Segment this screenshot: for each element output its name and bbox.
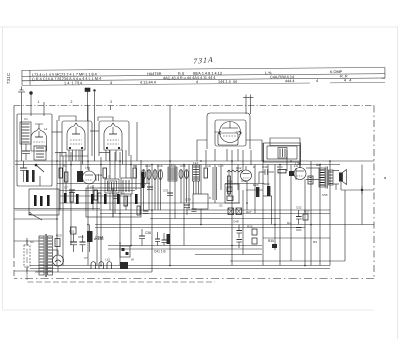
wire gang leads b [181, 179, 187, 204]
svg-text:4: 4 [196, 80, 198, 84]
wire riser x101 [100, 157, 102, 266]
capacitor C1 trimmer [22, 144, 30, 160]
resistor R14 dark [167, 234, 171, 244]
svg-text:C42: C42 [241, 179, 247, 183]
capacitor C52 [296, 210, 302, 225]
grid top mark V0 [35, 124, 43, 128]
wire link d [99, 152, 110, 154]
wire riser x215 [214, 165, 216, 204]
capacitor C48 [237, 225, 243, 239]
capacitor C2 [20, 161, 27, 182]
wire heater bus lower [30, 268, 330, 270]
mains switch block [120, 262, 128, 269]
svg-text:C12: C12 [112, 192, 118, 196]
wire riser x362 [361, 165, 363, 225]
svg-text:C1: C1 [24, 117, 28, 121]
resistor R11 [137, 206, 140, 215]
svg-text:C11: C11 [97, 173, 103, 177]
svg-text:P: P [209, 196, 211, 200]
earth terminal [30, 92, 33, 116]
svg-text:C31: C31 [163, 189, 169, 193]
resistor R0a dark [26, 170, 29, 182]
wire left link e [14, 218, 57, 220]
wire screen bus [150, 218, 280, 220]
wire riser x232 [231, 150, 233, 266]
svg-text:R8: R8 [133, 164, 137, 168]
wire heater bus upper [30, 265, 330, 267]
wire riser x170 [169, 106, 171, 266]
wire plate to transformer [306, 167, 319, 169]
wave band switch unit box [29, 189, 59, 215]
capacitor C35 [162, 233, 167, 246]
tube V0 band filter [31, 128, 47, 151]
wire riser x71 [70, 152, 72, 245]
resistor R33 [267, 186, 270, 196]
resistor R0b dark [32, 170, 35, 182]
svg-text:R33: R33 [264, 182, 270, 186]
svg-text:C25: C25 [218, 164, 224, 168]
oscillator coil hatched [77, 171, 83, 182]
chassis border left [13, 106, 15, 253]
variable capacitor C17 [159, 170, 163, 180]
resistor R3b [70, 192, 73, 202]
wire coil leads [194, 181, 199, 194]
wire riser x131 [130, 155, 132, 178]
resistor R4c dark [104, 194, 107, 204]
coil former lines [213, 167, 217, 200]
svg-text:C14: C14 [145, 164, 151, 168]
resistor R5 [124, 196, 127, 206]
chassis border right (dashed) [373, 106, 375, 279]
svg-text:R12: R12 [236, 166, 242, 170]
resistor R29 [256, 187, 259, 197]
resistor R4 [103, 168, 106, 178]
heater choke L14 [91, 262, 96, 269]
svg-text:144.1.4 44: 144.1.4 44 [218, 80, 237, 84]
wire detector line [225, 183, 262, 185]
svg-text:1: 1 [38, 100, 40, 104]
svg-text:R28: R28 [227, 180, 233, 184]
svg-text:731C: 731C [6, 73, 11, 84]
wire riser x152 [151, 165, 153, 273]
wire ground return [35, 271, 152, 273]
grid cap lead V1 [59, 116, 76, 121]
voltage selector block [120, 246, 130, 257]
wire link V1-V2 [90, 130, 99, 132]
capacitor C39 [184, 205, 190, 215]
svg-text:S2: S2 [219, 204, 223, 208]
mains antenna tap [243, 95, 254, 115]
tube V2 [104, 123, 122, 150]
wire det segment [246, 189, 263, 191]
switch unit box b [113, 188, 141, 217]
pickup terminals [85, 88, 95, 161]
wire riser x126 [125, 150, 127, 178]
wire riser x81 [80, 150, 82, 171]
wire grid segment [60, 195, 131, 197]
svg-text:C48: C48 [233, 220, 239, 224]
wire terminal 3 tick [110, 106, 112, 111]
wire cap riser x93 [92, 185, 94, 210]
variable capacitor C14 [142, 170, 146, 180]
resistor R5b dark [135, 194, 138, 204]
wire riser x229 [228, 170, 230, 196]
svg-text:R1: R1 [63, 164, 67, 168]
wire riser x63 [62, 156, 64, 266]
wire riser x196 [195, 165, 197, 195]
wire b plus right [263, 237, 330, 239]
wire riser x271 [271, 196, 273, 225]
detector coupling wavy resistor [227, 170, 243, 172]
wire riser x76 [75, 150, 77, 161]
wire mixer avc [197, 140, 207, 161]
wire transformer to rectifier [53, 249, 58, 251]
wire HT bus upper [15, 160, 374, 162]
svg-text:C46: C46 [262, 165, 268, 169]
svg-text:C36: C36 [145, 231, 151, 235]
wire AVC line [57, 183, 150, 185]
wire riser x110 [109, 150, 111, 179]
wire riser x263 [262, 143, 264, 266]
tube V5 detector [241, 166, 252, 181]
resistor R34 [278, 170, 286, 173]
svg-text:R20: R20 [56, 234, 62, 238]
svg-text:R29: R29 [253, 183, 259, 187]
mains transformer T3 primary [39, 236, 44, 275]
svg-text:4 4: 4 4 [344, 79, 351, 83]
coil L3 [34, 146, 46, 160]
wire mains lower [14, 270, 39, 272]
svg-text:C7: C7 [64, 186, 68, 190]
mixer box leads [215, 149, 238, 161]
wire B+ feed upper [95, 224, 374, 226]
IF transformer T1b box [121, 178, 132, 194]
wire detector return [195, 254, 262, 256]
tone capacitor C53 [296, 228, 302, 231]
capacitor C31 [167, 193, 173, 196]
wire riser x158 [157, 165, 159, 211]
svg-text:RS: RS [313, 240, 317, 244]
wire link c [60, 155, 88, 157]
svg-text:L4: L4 [85, 166, 89, 170]
svg-text:L15: L15 [105, 258, 110, 262]
inner screen box V4 [218, 133, 238, 145]
wire riser x136 [135, 165, 137, 190]
svg-text:444.4: 444.4 [285, 79, 295, 83]
wire riser x305 [304, 179, 306, 266]
wire antenna drop [21, 118, 23, 161]
wire riser x147 [146, 165, 148, 184]
svg-text:2: 2 [71, 100, 73, 104]
svg-text:C50: C50 [78, 235, 84, 239]
resistor R31 [252, 238, 257, 244]
wire cathode bus [15, 209, 330, 211]
capacitor C34 [155, 232, 160, 246]
capacitor C30 [147, 187, 153, 190]
capacitor C12 [113, 196, 119, 199]
wire grid-bias long [341, 189, 374, 191]
svg-text:C52: C52 [296, 206, 302, 210]
svg-text:R30: R30 [247, 225, 253, 229]
wire riser x66 [65, 152, 67, 203]
wire riser x88 low [87, 185, 89, 266]
wire riser x141 [140, 160, 142, 214]
wire left return [14, 208, 100, 210]
wire bias bus [100, 213, 330, 215]
junction dots [56, 160, 331, 266]
resistor R2b dark [40, 196, 43, 206]
wire riser x251 [250, 150, 252, 165]
capacitor C7 [69, 190, 75, 193]
oscillator unit box [86, 188, 113, 217]
svg-text:1.4. 1.7/14.: 1.4. 1.7/14. [64, 81, 83, 85]
input bandfilter shield box [17, 114, 52, 186]
resistor R4b [98, 193, 101, 203]
svg-text:U: U [119, 242, 121, 246]
svg-text:Ru: Ru [287, 221, 291, 225]
wire riser x60 [59, 152, 61, 210]
resistor R2a dark [34, 195, 37, 206]
wire riser x311b [310, 225, 312, 266]
svg-text:3: 3 [110, 100, 112, 104]
mains transformer T3 secondary [48, 236, 53, 275]
variable capacitor C15 [147, 170, 151, 180]
IF transformer T2 winding [278, 148, 287, 159]
svg-text:4AC.43.4.R.u.44.4A4.4.11.44.4: 4AC.43.4.R.u.44.4A4.4.11.44.4 [163, 76, 216, 80]
wire riser x296 [295, 168, 297, 180]
tube V4 mixer [215, 122, 242, 143]
resistor R3a dark [64, 193, 67, 203]
heater choke L15 [99, 262, 104, 269]
resistor R6 [133, 168, 136, 178]
wire link a [52, 131, 62, 133]
mains transformer T3 core [45, 234, 46, 277]
wire link b [55, 152, 66, 154]
switch lever left [29, 213, 42, 221]
wire riser x341 [340, 181, 342, 190]
wire riser x88 [87, 106, 89, 171]
wire riser x300 [299, 145, 301, 168]
wire riser x206 [205, 150, 207, 165]
capacitor C49 [237, 240, 243, 249]
capacitor C40 [192, 209, 197, 212]
wire det segment b [263, 195, 272, 197]
svg-text:R27: R27 [246, 210, 252, 214]
wire riser x243 [242, 190, 244, 255]
svg-text:Aof: Aof [316, 163, 321, 167]
resistor R1 [59, 168, 62, 178]
wire bias tick [361, 186, 363, 194]
wire HT bus lower [15, 164, 340, 166]
wire riser x275 [274, 165, 276, 251]
wire riser x120 [119, 152, 121, 178]
variable capacitor C19 [179, 170, 183, 179]
wire riser x345 [344, 190, 346, 261]
svg-text:C19: C19 [180, 164, 186, 168]
svg-text:4: 4 [110, 81, 112, 85]
hum bucking coil [308, 176, 313, 184]
wire riser x201 [200, 165, 202, 195]
tube V6 output [294, 163, 306, 180]
IF transformer T1 box [105, 179, 119, 193]
svg-text:W: W [131, 258, 134, 262]
tube V2 shield box [99, 121, 129, 156]
smoothing choke L13 [87, 225, 93, 253]
svg-text:C9: C9 [90, 186, 94, 190]
resistor R37 [303, 214, 308, 220]
svg-text:C33A: C33A [95, 236, 104, 240]
wire riser x137 [136, 122, 138, 161]
wire riser x311 [310, 161, 312, 225]
svg-text:C30: C30 [140, 183, 146, 187]
wire rectifier output [57, 266, 59, 272]
resistor R3c dark [76, 194, 79, 204]
wire speaker top [333, 170, 339, 172]
resistor R20 [55, 239, 60, 247]
capacitor C36 [139, 229, 145, 246]
svg-text:R21: R21 [69, 230, 75, 234]
padder capacitor C11 [96, 174, 99, 181]
wire decoupling line a [108, 245, 262, 247]
variable capacitor C16 [153, 170, 157, 180]
wire riser x189 [188, 165, 190, 211]
coil L12 [193, 165, 200, 181]
svg-text:HA4T6R: HA4T6R [147, 72, 162, 76]
variable capacitor C20 [185, 170, 189, 179]
wire field coil feed [306, 179, 319, 181]
wire V1 leads [69, 150, 83, 165]
mixer shield box outer [207, 113, 250, 149]
electrolytic capacitor C51 [80, 235, 86, 252]
switch S1 [35, 164, 44, 186]
wire riser x184 [183, 165, 185, 246]
svg-text:L12: L12 [193, 161, 198, 165]
wire cap riser x97 [96, 190, 98, 266]
resistor R30 [252, 229, 257, 235]
wire riser x175 [174, 165, 176, 219]
wire mixer output [246, 140, 262, 161]
IF coil L10 [168, 167, 177, 181]
chassis border bottom (dashed) [14, 278, 374, 280]
svg-text:4: 4 [316, 79, 318, 83]
output transformer T4 core [326, 167, 327, 189]
resistor R2c dark [47, 195, 50, 206]
speaker LS [339, 170, 347, 185]
coil L1 [20, 122, 31, 144]
svg-text:a: a [384, 176, 386, 180]
wire riser x320 [319, 165, 321, 266]
output transformer T4 secondary [329, 170, 333, 185]
wire af return [230, 260, 345, 262]
wire riser x259 [258, 172, 260, 184]
svg-text:C55: C55 [322, 193, 328, 197]
switch contacts S2 [228, 208, 242, 215]
grid cap lead V2 [98, 117, 113, 121]
resistor R5a dark [117, 194, 120, 204]
grid box R28 C43 [225, 184, 239, 203]
capacitor C46 [259, 169, 274, 175]
wire mains input [14, 240, 39, 242]
junction dot bias [361, 189, 363, 191]
resistor R21 [71, 227, 77, 234]
resistor R12 [228, 176, 231, 194]
wire speaker bottom [333, 183, 339, 185]
svg-text:R5: R5 [121, 192, 125, 196]
wire riser x255 [254, 165, 256, 214]
wire gang leads [144, 180, 161, 211]
wire terminal 1 drop [43, 102, 45, 116]
resistor R32 block [289, 171, 294, 176]
svg-text:K.OMP: K.OMP [330, 70, 343, 74]
svg-text:C39: C39 [185, 198, 191, 202]
heater choke L16 [107, 262, 112, 269]
mains filter capacitor dashed [24, 238, 30, 274]
electrolytic capacitor C50 [70, 234, 77, 252]
resistor R3 [94, 190, 97, 200]
capacitor C29 [143, 211, 149, 213]
wire riser x221 [220, 165, 222, 191]
svg-text:R34: R34 [277, 165, 283, 169]
wire B+ feed lower [95, 227, 305, 229]
svg-text:C16: C16 [157, 164, 163, 168]
tube V1 shield box [62, 121, 92, 156]
IF transformer T2 inner [267, 146, 297, 159]
svg-text:R37: R37 [304, 210, 310, 214]
svg-text:S3: S3 [30, 240, 34, 244]
svg-text:Lu: Lu [294, 164, 298, 168]
svg-text:C41 1 B: C41 1 B [154, 250, 166, 254]
resistor R8 [142, 172, 145, 188]
wire riser x238 [237, 165, 239, 191]
chassis border top (dash-dot) [14, 105, 374, 107]
svg-text:4.13.44.4: 4.13.44.4 [140, 81, 156, 85]
wire riser x280 [279, 165, 281, 266]
wire avc segment [60, 190, 135, 192]
wire V2 leads [106, 150, 123, 165]
wire riser x243 [242, 150, 244, 170]
wire riser x115 [114, 152, 116, 179]
wire riser x268 [267, 165, 269, 197]
svg-text:R35: R35 [268, 239, 274, 243]
wire decoupling line b [108, 248, 262, 250]
svg-text:R10: R10 [205, 164, 211, 168]
resistor R4a dark [91, 194, 94, 204]
wire riser x287 [286, 150, 288, 171]
parts table frame [22, 67, 385, 85]
rectifier tube V7 [53, 250, 64, 266]
antenna lead-in [18, 87, 25, 119]
svg-text:V7: V7 [84, 256, 88, 260]
wire riser x57 [56, 120, 58, 266]
wire speaker return [335, 184, 337, 190]
tube V3 oscillator [83, 167, 96, 184]
resistor R36 dark [272, 244, 277, 248]
svg-text:L10: L10 [169, 163, 174, 167]
wire riser x247 [246, 181, 248, 210]
mixer shield box inner [215, 120, 246, 146]
output transformer T4 winding [319, 168, 325, 187]
resistor R2 [65, 172, 68, 182]
resistor R10 [204, 168, 207, 178]
IF transformer T2 outer [264, 143, 301, 162]
wire T2 leads [270, 138, 300, 168]
svg-text:L2: L2 [44, 127, 48, 131]
volume control box [193, 194, 208, 209]
svg-text:S: S [108, 175, 110, 179]
wire riser x291 [290, 165, 292, 262]
wire grid bus [60, 202, 240, 204]
wire riser x330 [329, 161, 331, 266]
